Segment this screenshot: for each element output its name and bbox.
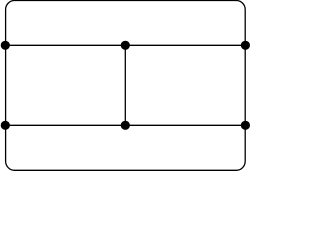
node: junction bottom-left (1, 121, 10, 130)
node: junction top-right (241, 41, 250, 50)
wire: bottom horizontal rail (6, 124, 246, 126)
node: junction bottom-middle (121, 121, 130, 130)
wire: middle vertical branch (124, 45, 126, 125)
node: junction top-middle (121, 41, 130, 50)
node: junction bottom-right (241, 121, 250, 130)
node: junction top-left (1, 41, 10, 50)
wire: outer circuit loop (rounded rectangle) (6, 1, 246, 171)
wire: top horizontal rail (6, 44, 246, 46)
